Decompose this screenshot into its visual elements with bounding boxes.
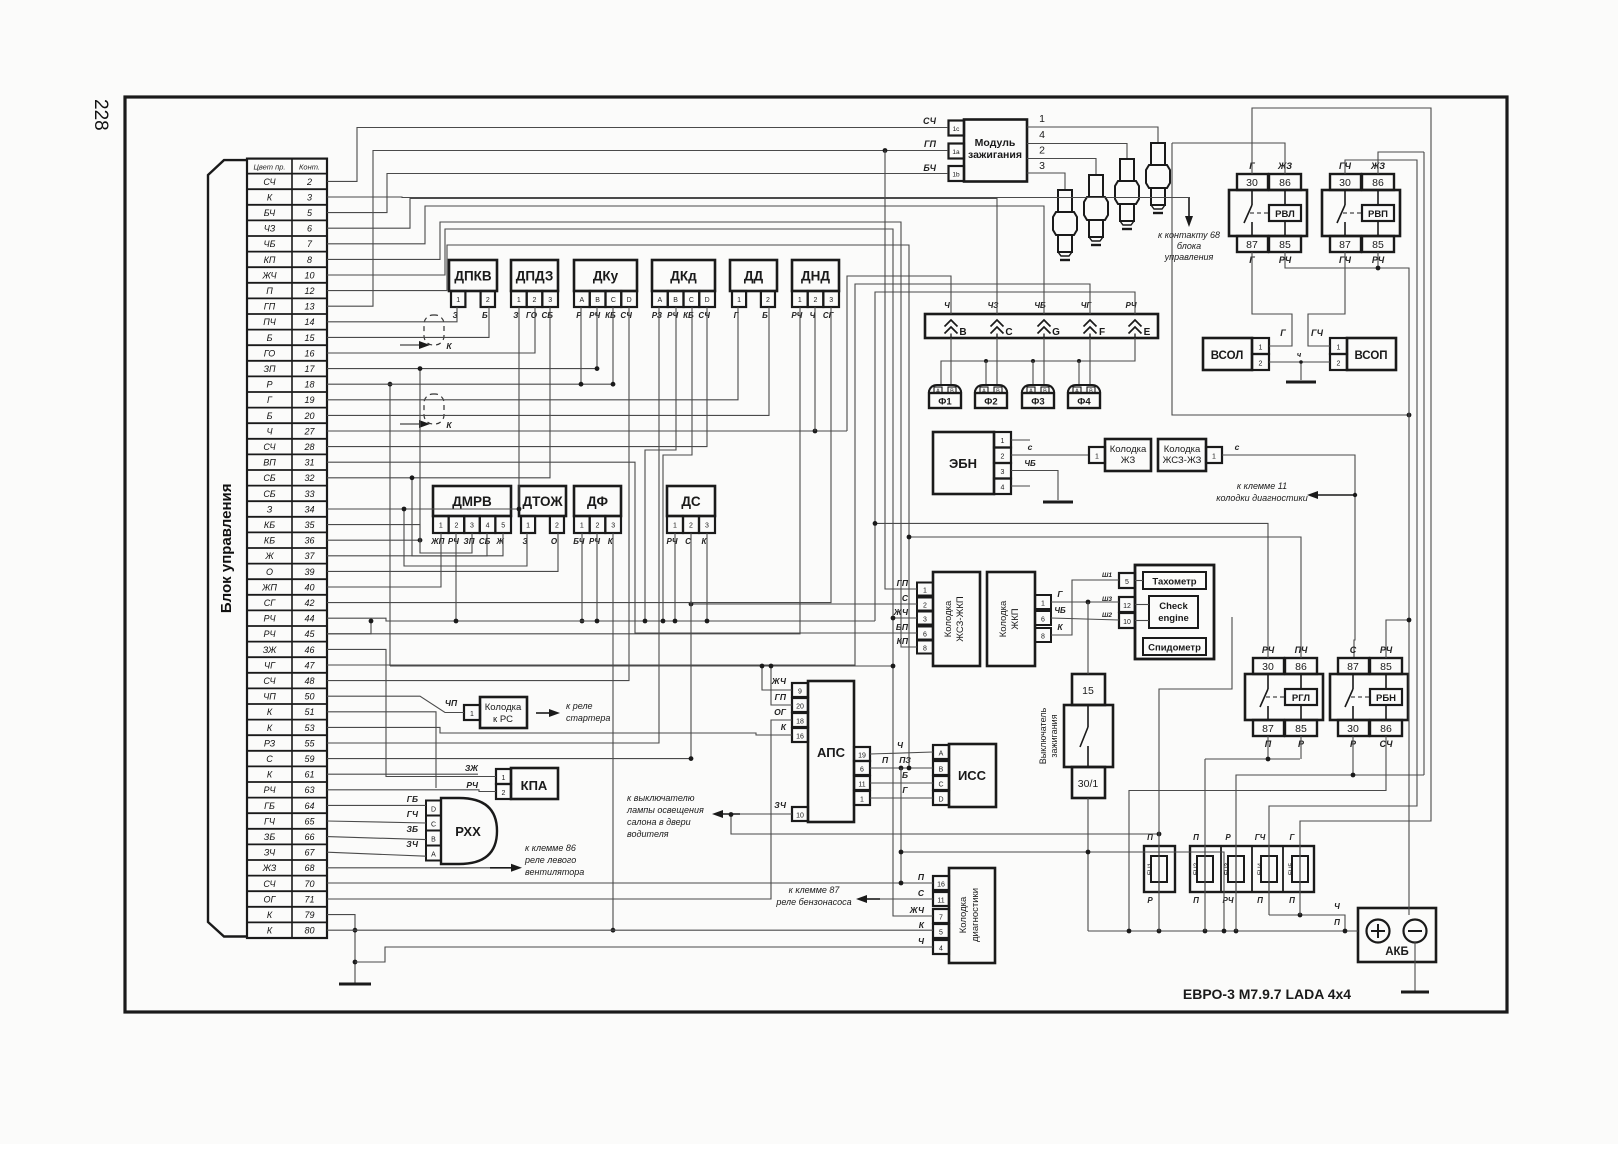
svg-text:блока: блока (1177, 241, 1201, 251)
svg-text:2: 2 (1001, 454, 1005, 461)
svg-text:ЧБ: ЧБ (264, 239, 276, 249)
svg-text:Б: Б (267, 411, 273, 421)
svg-text:БЧ: БЧ (264, 208, 276, 218)
svg-text:ВП: ВП (263, 458, 276, 468)
svg-text:ДПДЗ: ДПДЗ (516, 269, 554, 284)
svg-text:3: 3 (1039, 160, 1045, 172)
svg-text:П: П (918, 872, 925, 882)
wire ДПДЗ pins (327, 307, 519, 509)
svg-text:36: 36 (304, 536, 314, 546)
connector Колодка ЖСЗ-ЖКП (933, 572, 980, 666)
svg-text:Выключатель: Выключатель (1038, 707, 1048, 764)
svg-text:D: D (938, 797, 943, 804)
svg-text:РЧ: РЧ (263, 785, 276, 795)
svg-text:В: В (595, 297, 600, 304)
svg-text:70: 70 (304, 879, 314, 889)
svg-text:G: G (1052, 327, 1060, 338)
svg-text:СЧ: СЧ (263, 177, 276, 187)
wire ЖЗ net relay coils (1172, 143, 1285, 174)
svg-text:2: 2 (766, 297, 770, 304)
injector Ф3 (1022, 385, 1054, 393)
svg-text:30: 30 (1339, 177, 1351, 189)
svg-text:ЖЗ: ЖЗ (1121, 455, 1136, 466)
svg-text:П: П (1193, 896, 1199, 905)
wire ГП net vertical to ЖСЗ-ЖКП pin1 (885, 151, 917, 590)
svg-text:П: П (1334, 918, 1340, 927)
svg-text:РЧ: РЧ (466, 780, 479, 790)
fuse (1292, 856, 1308, 882)
svg-text:20: 20 (796, 704, 804, 711)
shield symbol K (424, 315, 444, 345)
injector Ф1 (929, 385, 961, 393)
svg-text:32: 32 (304, 473, 314, 483)
svg-text:18: 18 (796, 719, 804, 726)
svg-text:64: 64 (304, 801, 314, 811)
svg-text:Р: Р (266, 380, 272, 390)
svg-text:30: 30 (1347, 723, 1359, 735)
arrow to contact 68 (1188, 197, 1190, 216)
tachometer (1143, 572, 1206, 589)
svg-text:71: 71 (304, 894, 314, 904)
svg-text:85: 85 (1380, 661, 1392, 673)
svg-text:9: 9 (798, 689, 802, 696)
svg-text:ГО: ГО (526, 311, 538, 320)
svg-text:7: 7 (939, 915, 943, 922)
svg-text:4: 4 (1001, 485, 1005, 492)
svg-text:ЗЧ: ЗЧ (264, 848, 276, 858)
svg-text:Колодка: Колодка (485, 702, 522, 713)
svg-text:2: 2 (555, 523, 559, 530)
svg-text:63: 63 (304, 785, 314, 795)
fuse block FU2-FU5 (1190, 846, 1314, 892)
svg-text:ВСОЛ: ВСОЛ (1211, 350, 1244, 362)
svg-text:Ф4: Ф4 (1077, 397, 1091, 408)
svg-text:СЧ: СЧ (620, 311, 632, 320)
APS-ISS wires (870, 752, 933, 754)
svg-text:2: 2 (454, 523, 458, 530)
wire row K3 to contact-68 arrow (327, 196, 1189, 199)
diagnostic connector (Колодка диагностики) (949, 868, 995, 963)
svg-text:2: 2 (814, 297, 818, 304)
svg-text:Ш2: Ш2 (1102, 612, 1112, 619)
svg-text:2: 2 (1337, 361, 1341, 368)
svg-text:зажигания: зажигания (1049, 714, 1059, 757)
fuse (1261, 856, 1277, 882)
svg-text:66: 66 (304, 832, 314, 842)
wire БЧ5 to ignition module (327, 174, 948, 213)
sensor ДД (730, 260, 777, 291)
svg-text:ГЧ: ГЧ (1255, 833, 1266, 842)
svg-text:КПА: КПА (521, 778, 548, 793)
wire ДКд РЗ to row 55 (327, 307, 659, 743)
svg-text:зажигания: зажигания (968, 149, 1022, 161)
svg-text:ИСС: ИСС (958, 768, 987, 783)
svg-text:Цвет пр.: Цвет пр. (253, 163, 285, 172)
svg-text:87: 87 (1339, 239, 1351, 251)
svg-text:ГП: ГП (897, 578, 909, 588)
svg-text:П: П (882, 755, 889, 765)
svg-text:лампы освещения: лампы освещения (626, 805, 704, 815)
svg-text:6: 6 (307, 224, 312, 234)
KPA wires (327, 649, 496, 776)
wire ChP to starter connector (327, 696, 464, 712)
rail contact G (1038, 320, 1051, 338)
svg-text:ДКд: ДКд (670, 269, 697, 284)
battery ground (1414, 942, 1416, 991)
svg-text:1: 1 (860, 797, 864, 804)
svg-text:ЗЧ: ЗЧ (774, 800, 787, 810)
svg-text:ЖП: ЖП (261, 582, 277, 592)
svg-text:45: 45 (304, 629, 315, 639)
svg-text:Конт.: Конт. (299, 163, 320, 172)
wire РВП86 ЖЗ right bundle (1423, 152, 1425, 775)
wire ДФ pins (581, 533, 583, 621)
ignition switch (Выключатель зажигания) (1072, 674, 1105, 705)
wire ДКд РЧ jog to sensor bus (645, 307, 676, 621)
outer frame (125, 97, 1507, 1012)
svg-text:3: 3 (307, 192, 312, 202)
svg-text:1: 1 (1259, 345, 1263, 352)
svg-text:П: П (266, 286, 273, 296)
svg-text:3: 3 (548, 297, 552, 304)
svg-text:ДНД: ДНД (801, 269, 830, 284)
sensor ДФ (574, 486, 621, 516)
svg-text:Ж: Ж (264, 551, 274, 561)
svg-text:37: 37 (304, 551, 315, 561)
svg-text:Б: Б (762, 311, 768, 320)
svg-text:59: 59 (304, 754, 314, 764)
svg-text:К: К (267, 910, 273, 920)
wire RBN pins (1386, 620, 1409, 658)
svg-text:Тахометр: Тахометр (1152, 577, 1196, 588)
svg-text:КБ: КБ (264, 536, 275, 546)
wire С net to ЖСЗ-ЖКП pin2 (691, 603, 917, 605)
svg-text:СБ: СБ (263, 473, 275, 483)
svg-text:РБН: РБН (1376, 693, 1396, 704)
svg-text:ЧБ: ЧБ (1054, 606, 1066, 615)
svg-text:85: 85 (1279, 239, 1291, 251)
wire RBN86 СЧ net (1129, 736, 1386, 931)
svg-text:ЖСЗ-ЖКП: ЖСЗ-ЖКП (955, 596, 966, 642)
svg-text:8: 8 (307, 255, 312, 265)
wire КП8 to ЖСЗ-ЖКП pin8 (327, 222, 917, 647)
svg-text:D: D (705, 297, 710, 304)
relay РВП (1330, 174, 1361, 190)
svg-text:РЗ: РЗ (652, 311, 662, 320)
svg-text:ЧГ: ЧГ (264, 660, 276, 670)
svg-text:1: 1 (1001, 438, 1005, 445)
wire APS interior-light (740, 813, 792, 815)
svg-text:28: 28 (303, 442, 314, 452)
svg-text:15: 15 (1082, 685, 1094, 697)
svg-text:F: F (1099, 327, 1105, 338)
svg-text:C: C (1005, 327, 1012, 338)
svg-text:2: 2 (502, 790, 506, 797)
relay РБН (1338, 658, 1369, 674)
svg-text:65: 65 (304, 816, 315, 826)
sensor ДНД (792, 260, 839, 291)
wire ДНД pins (327, 307, 800, 634)
svg-text:46: 46 (304, 645, 314, 655)
svg-text:1: 1 (1095, 454, 1099, 461)
svg-text:87: 87 (1246, 239, 1258, 251)
svg-text:Б: Б (267, 333, 273, 343)
svg-text:ГЧ: ГЧ (1311, 328, 1324, 338)
wire P-net vertical (900, 768, 902, 883)
svg-text:Ф1: Ф1 (938, 397, 952, 408)
svg-text:D: D (431, 807, 436, 814)
svg-text:Б: Б (902, 770, 908, 780)
svg-text:диагностики: диагностики (970, 888, 981, 942)
svg-text:Колодка: Колодка (998, 600, 1009, 637)
svg-text:44: 44 (304, 614, 314, 624)
svg-text:ГЧ: ГЧ (407, 809, 419, 819)
svg-text:ЖЧ: ЖЧ (909, 905, 925, 915)
svg-text:РЧ: РЧ (448, 537, 459, 546)
svg-text:К: К (267, 770, 273, 780)
svg-text:3: 3 (611, 523, 615, 530)
svg-text:1с: 1с (953, 126, 961, 133)
svg-text:34: 34 (304, 504, 314, 514)
svg-text:Колодка: Колодка (943, 600, 954, 637)
svg-text:ДМРВ: ДМРВ (452, 494, 492, 509)
connector Колодка ЖКП (987, 572, 1035, 666)
svg-text:12: 12 (1123, 603, 1131, 610)
svg-text:К: К (267, 192, 273, 202)
svg-text:Г: Г (902, 785, 908, 795)
svg-text:ч: ч (1297, 350, 1302, 359)
svg-text:12: 12 (304, 286, 314, 296)
svg-text:18: 18 (304, 380, 314, 390)
connector Колодка ЖЗ (1089, 447, 1105, 463)
svg-text:ЗБ: ЗБ (264, 832, 276, 842)
svg-text:СБ: СБ (263, 489, 275, 499)
spark plug (1084, 175, 1108, 245)
svg-text:51: 51 (304, 707, 314, 717)
svg-text:5: 5 (501, 523, 505, 530)
svg-text:ДКу: ДКу (593, 269, 619, 284)
wire APS pin20 ГП (771, 666, 792, 705)
svg-text:80: 80 (304, 926, 314, 936)
wire ДД pins (327, 307, 738, 400)
svg-text:СЧ: СЧ (698, 311, 710, 320)
svg-text:86: 86 (1279, 177, 1291, 189)
svg-text:3: 3 (829, 297, 833, 304)
svg-text:ЗП: ЗП (464, 537, 475, 546)
svg-text:31: 31 (304, 458, 314, 468)
sensor ДПКВ (449, 260, 497, 291)
svg-text:ВСОП: ВСОП (1354, 350, 1387, 362)
svg-text:В: В (939, 767, 944, 774)
svg-text:40: 40 (304, 582, 314, 592)
spark plug (1053, 190, 1077, 260)
svg-text:к РС: к РС (493, 714, 513, 725)
svg-text:КП: КП (897, 636, 909, 646)
wire БП31 to ЖСЗ-ЖКП pin6 (327, 462, 917, 633)
svg-text:10: 10 (1123, 619, 1131, 626)
wire ДКд СЧ to row 28 (327, 307, 707, 447)
fan wires and ground (1252, 252, 1292, 346)
svg-text:4: 4 (939, 946, 943, 953)
svg-text:5: 5 (1125, 579, 1129, 586)
svg-text:управления: управления (1164, 252, 1214, 262)
fuse (1197, 856, 1213, 882)
svg-text:С: С (689, 297, 694, 304)
svg-text:С: С (266, 754, 273, 764)
svg-text:К: К (446, 341, 452, 351)
ECU connector outline (Блок управления) (208, 160, 247, 936)
svg-text:30/1: 30/1 (1078, 778, 1099, 790)
svg-text:Р: Р (1225, 833, 1231, 842)
wire ДПКВ pins to ECU (327, 307, 457, 322)
svg-text:D: D (627, 297, 632, 304)
svg-text:20: 20 (303, 411, 314, 421)
svg-text:67: 67 (304, 848, 315, 858)
svg-text:85: 85 (1295, 723, 1307, 735)
wire ДМРВ pins (327, 533, 441, 587)
relay РВЛ (1237, 174, 1268, 190)
svg-text:С: С (611, 297, 616, 304)
wire СЧ70 to diag pin16 (327, 882, 933, 884)
svg-text:35: 35 (304, 520, 315, 530)
svg-text:Блок управления: Блок управления (218, 484, 235, 614)
svg-text:61: 61 (304, 770, 314, 780)
svg-text:ЖКП: ЖКП (1010, 608, 1021, 629)
wire ЧГ47 to rail F (327, 284, 1090, 665)
sensor ДКу (574, 260, 637, 291)
svg-text:1: 1 (517, 297, 521, 304)
svg-text:FU4: FU4 (1257, 862, 1264, 875)
wire row КБ35 stub (327, 525, 420, 541)
svg-text:СЧ: СЧ (263, 676, 276, 686)
svg-text:СГ: СГ (823, 311, 835, 320)
svg-text:КБ: КБ (605, 311, 616, 320)
EBN wires (1011, 439, 1030, 441)
svg-text:ЗП: ЗП (263, 364, 276, 374)
svg-text:50: 50 (304, 692, 314, 702)
svg-text:FU5: FU5 (1288, 862, 1295, 875)
svg-text:3: 3 (705, 523, 709, 530)
svg-text:16: 16 (937, 882, 945, 889)
svg-text:СЧ: СЧ (263, 879, 276, 889)
sensor ground bus РЧ44 (327, 618, 875, 621)
svg-text:1: 1 (1337, 345, 1341, 352)
svg-text:ГП: ГП (264, 302, 276, 312)
svg-text:К: К (781, 722, 787, 732)
svg-text:53: 53 (304, 723, 314, 733)
svg-text:О: О (266, 567, 273, 577)
svg-text:РЗ: РЗ (264, 738, 276, 748)
svg-text:ЭБН: ЭБН (949, 456, 977, 471)
svg-text:ЕВРО-3 М7.9.7 LADA 4x4: ЕВРО-3 М7.9.7 LADA 4x4 (1183, 986, 1351, 1002)
svg-text:ДТОЖ: ДТОЖ (522, 494, 563, 509)
fuse block FU1 (1144, 846, 1175, 892)
svg-text:ГП: ГП (775, 692, 787, 702)
svg-text:5: 5 (939, 930, 943, 937)
svg-text:10: 10 (304, 270, 314, 280)
svg-text:К: К (919, 920, 925, 930)
svg-text:СБ: СБ (479, 537, 491, 546)
wire ЧБ7 to rail G (327, 206, 1044, 314)
svg-text:РЧ: РЧ (667, 537, 678, 546)
svg-text:БП: БП (896, 622, 909, 632)
wire П12 net to ISS (327, 245, 909, 768)
svg-text:ПЧ: ПЧ (263, 317, 277, 327)
ignition module (Модуль зажигания) (964, 120, 1027, 182)
rail contact B (945, 320, 958, 338)
svg-text:к клемме 11: к клемме 11 (1237, 481, 1287, 491)
instrument cluster box (1135, 565, 1214, 659)
svg-text:Ч: Ч (1334, 902, 1340, 911)
svg-text:РЧ: РЧ (263, 614, 276, 624)
svg-text:О: О (551, 537, 558, 546)
wire RGL pins (875, 523, 1268, 658)
svg-text:15: 15 (304, 333, 315, 343)
wire СЧ2 to ignition module (327, 128, 948, 182)
svg-text:1: 1 (470, 711, 474, 718)
svg-text:4: 4 (486, 523, 490, 530)
svg-text:К: К (267, 723, 273, 733)
fuse (1151, 856, 1167, 882)
svg-text:ДС: ДС (681, 494, 701, 509)
svg-text:55: 55 (304, 738, 315, 748)
svg-text:79: 79 (304, 910, 314, 920)
svg-text:30: 30 (1246, 177, 1258, 189)
svg-text:1а: 1а (952, 149, 960, 156)
svg-text:10: 10 (796, 813, 804, 820)
svg-text:ДФ: ДФ (587, 494, 608, 509)
sensor ДС (667, 486, 715, 516)
wire to left fan relay note (327, 867, 490, 869)
svg-text:6: 6 (923, 632, 927, 639)
svg-text:колодки диагностики: колодки диагностики (1216, 493, 1308, 503)
svg-text:с: с (1028, 442, 1033, 452)
svg-text:ЗБ: ЗБ (407, 824, 418, 834)
spark plug (1146, 143, 1170, 213)
svg-text:БЧ: БЧ (573, 537, 585, 546)
svg-text:СЧ: СЧ (263, 442, 276, 452)
svg-text:1: 1 (580, 523, 584, 530)
svg-text:ОГ: ОГ (774, 707, 787, 717)
svg-text:А: А (939, 751, 944, 758)
svg-text:19: 19 (304, 395, 314, 405)
svg-text:6: 6 (860, 767, 864, 774)
wire ОГ71 to APS pin18 (327, 720, 792, 899)
svg-text:ЗЖ: ЗЖ (263, 645, 277, 655)
svg-text:Модуль: Модуль (975, 137, 1016, 149)
svg-text:3: 3 (1001, 469, 1005, 476)
svg-text:РГЛ: РГЛ (1292, 693, 1310, 704)
svg-text:РЧ: РЧ (589, 311, 600, 320)
rail contact C (991, 320, 1004, 338)
svg-text:Г: Г (1280, 328, 1286, 338)
svg-text:85: 85 (1372, 239, 1384, 251)
wire row КБ36 stub (327, 539, 420, 541)
svg-text:ОГ: ОГ (264, 894, 277, 904)
wire К51 (327, 712, 436, 788)
svg-text:1: 1 (456, 297, 460, 304)
svg-text:1: 1 (923, 588, 927, 595)
svg-text:27: 27 (303, 426, 315, 436)
sensor ДПДЗ (511, 260, 558, 291)
svg-text:1: 1 (1039, 113, 1045, 125)
svg-text:A: A (431, 852, 436, 859)
ECU pin table (247, 159, 327, 938)
svg-text:2: 2 (306, 177, 312, 187)
svg-text:FU1: FU1 (1147, 862, 1154, 875)
svg-text:Ф2: Ф2 (984, 397, 997, 408)
svg-text:E: E (1144, 327, 1151, 338)
